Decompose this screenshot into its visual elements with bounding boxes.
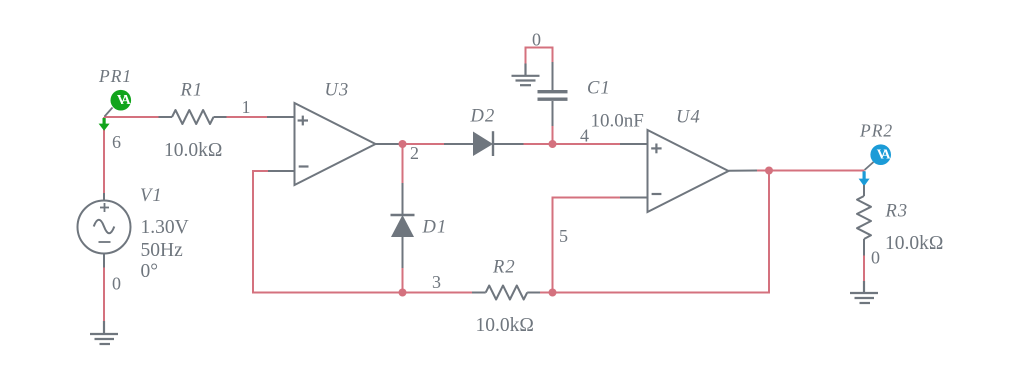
op-amp U3: [295, 103, 376, 185]
ground at V1: [90, 321, 118, 344]
diode D2: [444, 131, 524, 156]
wire PR2 corner down to R3: [863, 171, 865, 187]
svg-text:R2: R2: [492, 258, 516, 278]
op-amp U3 +input pin stub: [267, 116, 295, 118]
wire net6 horizontal top-left: [104, 116, 160, 118]
wire net1 R1 to U3 +input: [226, 116, 267, 118]
svg-text:4: 4: [580, 126, 589, 146]
wire net5 from node5 up to U4 -input: [553, 198, 621, 293]
svg-text:0: 0: [532, 30, 541, 50]
op-amp U3 output pin stub: [376, 143, 403, 145]
svg-text:6: 6: [112, 132, 121, 152]
svg-text:D1: D1: [422, 218, 448, 238]
svg-text:R3: R3: [885, 202, 909, 222]
op-amp U3 -input pin stub: [268, 170, 295, 172]
svg-text:PR1: PR1: [98, 66, 132, 86]
wire D1 to node 3: [402, 268, 404, 293]
svg-text:0°: 0°: [141, 261, 159, 282]
wire node3 to R2: [403, 292, 473, 294]
svg-text:C1: C1: [587, 79, 611, 99]
op-amp U4: [648, 130, 729, 212]
svg-text:V1: V1: [140, 186, 163, 206]
wire net4 to U4: [553, 143, 621, 145]
wire U4 feedback right vertical: [553, 171, 770, 293]
wire U4 output to junction: [757, 170, 769, 172]
probe PR2 current arrow: [859, 171, 870, 186]
capacitor C1: [538, 62, 568, 126]
probe PR1 pointer: [105, 108, 113, 117]
svg-text:PR2: PR2: [859, 121, 893, 141]
svg-text:5: 5: [559, 226, 568, 246]
diode D1: [391, 183, 415, 268]
wire R3 to ground: [863, 256, 865, 282]
ground at R3: [850, 281, 878, 303]
probe PR2 pointer: [865, 162, 874, 170]
op-amp U4 -input pin stub: [620, 197, 648, 199]
resistor R2: [471, 286, 540, 300]
wire U3 feedback left vertical: [253, 171, 403, 293]
svg-text:0: 0: [112, 274, 121, 294]
wire R2 to node5: [540, 292, 553, 294]
wire V1 to ground: [103, 268, 105, 322]
probe PR1 icon: [111, 90, 132, 111]
probe PR2 icon: [870, 144, 891, 165]
U4 output junction: [765, 167, 773, 175]
svg-text:D2: D2: [470, 107, 496, 127]
wire output to PR2/R3: [769, 170, 864, 172]
voltage source V1: [78, 193, 131, 268]
op-amp U4 +input pin stub: [620, 143, 648, 145]
svg-text:1: 1: [242, 97, 251, 117]
wire C1 bottom to node 4: [552, 126, 554, 144]
svg-text:10.0nF: 10.0nF: [591, 111, 644, 132]
node 3 junction: [399, 289, 407, 297]
wire C1 top to ground: [526, 48, 553, 64]
wire net2 down to D1: [402, 144, 404, 184]
node 2 junction: [399, 140, 407, 148]
probe PR1 current arrow: [99, 118, 110, 131]
wire D2 to node 4: [524, 143, 553, 145]
ground at C1: [512, 64, 540, 86]
svg-text:50Hz: 50Hz: [141, 240, 184, 261]
resistor R3: [857, 185, 871, 256]
svg-text:3: 3: [432, 272, 441, 292]
node 5 junction: [549, 289, 557, 297]
svg-text:R1: R1: [180, 81, 204, 101]
svg-text:10.0kΩ: 10.0kΩ: [885, 233, 943, 254]
wire net6 vertical to V1: [103, 117, 105, 193]
svg-text:2: 2: [410, 143, 419, 163]
wire net2 to D2: [403, 143, 445, 145]
op-amp U4 output pin stub: [729, 170, 758, 172]
svg-text:U3: U3: [325, 81, 350, 101]
svg-text:10.0kΩ: 10.0kΩ: [164, 140, 222, 161]
resistor R1: [159, 110, 227, 124]
svg-text:0: 0: [871, 248, 880, 268]
node 4 junction: [549, 140, 557, 148]
svg-text:U4: U4: [676, 108, 701, 128]
svg-text:1.30V: 1.30V: [141, 217, 189, 238]
svg-text:10.0kΩ: 10.0kΩ: [476, 315, 534, 336]
